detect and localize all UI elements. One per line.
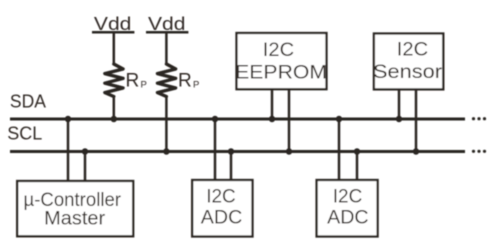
node R1-SDA junction [111, 116, 118, 123]
svg-text:ADC: ADC [201, 208, 243, 229]
svg-text:Master: Master [44, 209, 106, 230]
svg-text:I2C: I2C [206, 186, 236, 207]
svg-text:EEPROM: EEPROM [235, 62, 327, 83]
node uC-SCL junction [82, 148, 89, 155]
power Vdd left [92, 13, 134, 34]
svg-text:SDA: SDA [10, 92, 46, 112]
node ADC2-SCL junction [354, 148, 361, 155]
node uC-SDA junction [65, 116, 72, 123]
wire uC SCL pin [84, 152, 87, 182]
svg-text:R: R [126, 71, 140, 92]
svg-text:I2C: I2C [263, 40, 294, 61]
svg-text:SCL: SCL [7, 123, 42, 143]
node SCL continuation dots [472, 150, 486, 153]
wire Sensor SDA pin [398, 89, 401, 119]
svg-text:R: R [178, 71, 192, 92]
node SDA continuation dots [472, 117, 486, 120]
wire uC SDA pin [67, 119, 70, 181]
node ADC1-SCL junction [228, 148, 235, 155]
node Sensor-SDA junction [396, 116, 403, 123]
wire SCL bus [10, 150, 465, 153]
box I2C ADC first [192, 180, 252, 237]
power Vdd right [146, 13, 188, 34]
svg-text:P: P [141, 80, 147, 91]
svg-text:I2C: I2C [333, 186, 363, 207]
svg-text:I2C: I2C [397, 40, 428, 61]
wire R2 to SCL crossing SDA [165, 96, 168, 152]
box I2C ADC second [317, 180, 378, 237]
wire EEPROM SCL pin crossing SDA [288, 89, 291, 151]
wire EEPROM SDA pin [271, 89, 274, 119]
node ADC1-SDA junction [212, 116, 219, 123]
node Sensor-SCL junction [413, 148, 420, 155]
svg-text:Vdd: Vdd [94, 13, 131, 34]
node R2-SCL junction [163, 148, 170, 155]
box I2C EEPROM [235, 33, 327, 89]
wire ADC1 SCL pin [230, 152, 233, 181]
resistor RP right [157, 64, 175, 97]
svg-text:Sensor: Sensor [373, 62, 443, 83]
svg-text:ADC: ADC [327, 208, 369, 229]
wire SDA bus [10, 118, 465, 121]
box u-Controller Master [17, 181, 133, 236]
svg-text:P: P [193, 80, 199, 91]
node ADC2-SDA junction [336, 116, 343, 123]
wire ADC2 SCL pin [356, 152, 359, 181]
wire ADC1 SDA pin crossing SCL [214, 119, 217, 180]
svg-text:Vdd: Vdd [148, 13, 186, 34]
resistor RP left [105, 64, 123, 97]
box I2C Sensor [373, 34, 443, 90]
wire ADC2 SDA pin crossing SCL [338, 119, 341, 180]
node EEPROM-SDA junction [269, 116, 276, 123]
wire Vdd-left to R1 [113, 32, 116, 64]
wire R1 to SDA [113, 96, 116, 119]
wire Sensor SCL pin crossing SDA [415, 89, 418, 151]
node EEPROM-SCL junction [286, 148, 293, 155]
wire Vdd-right to R2 [165, 32, 168, 64]
